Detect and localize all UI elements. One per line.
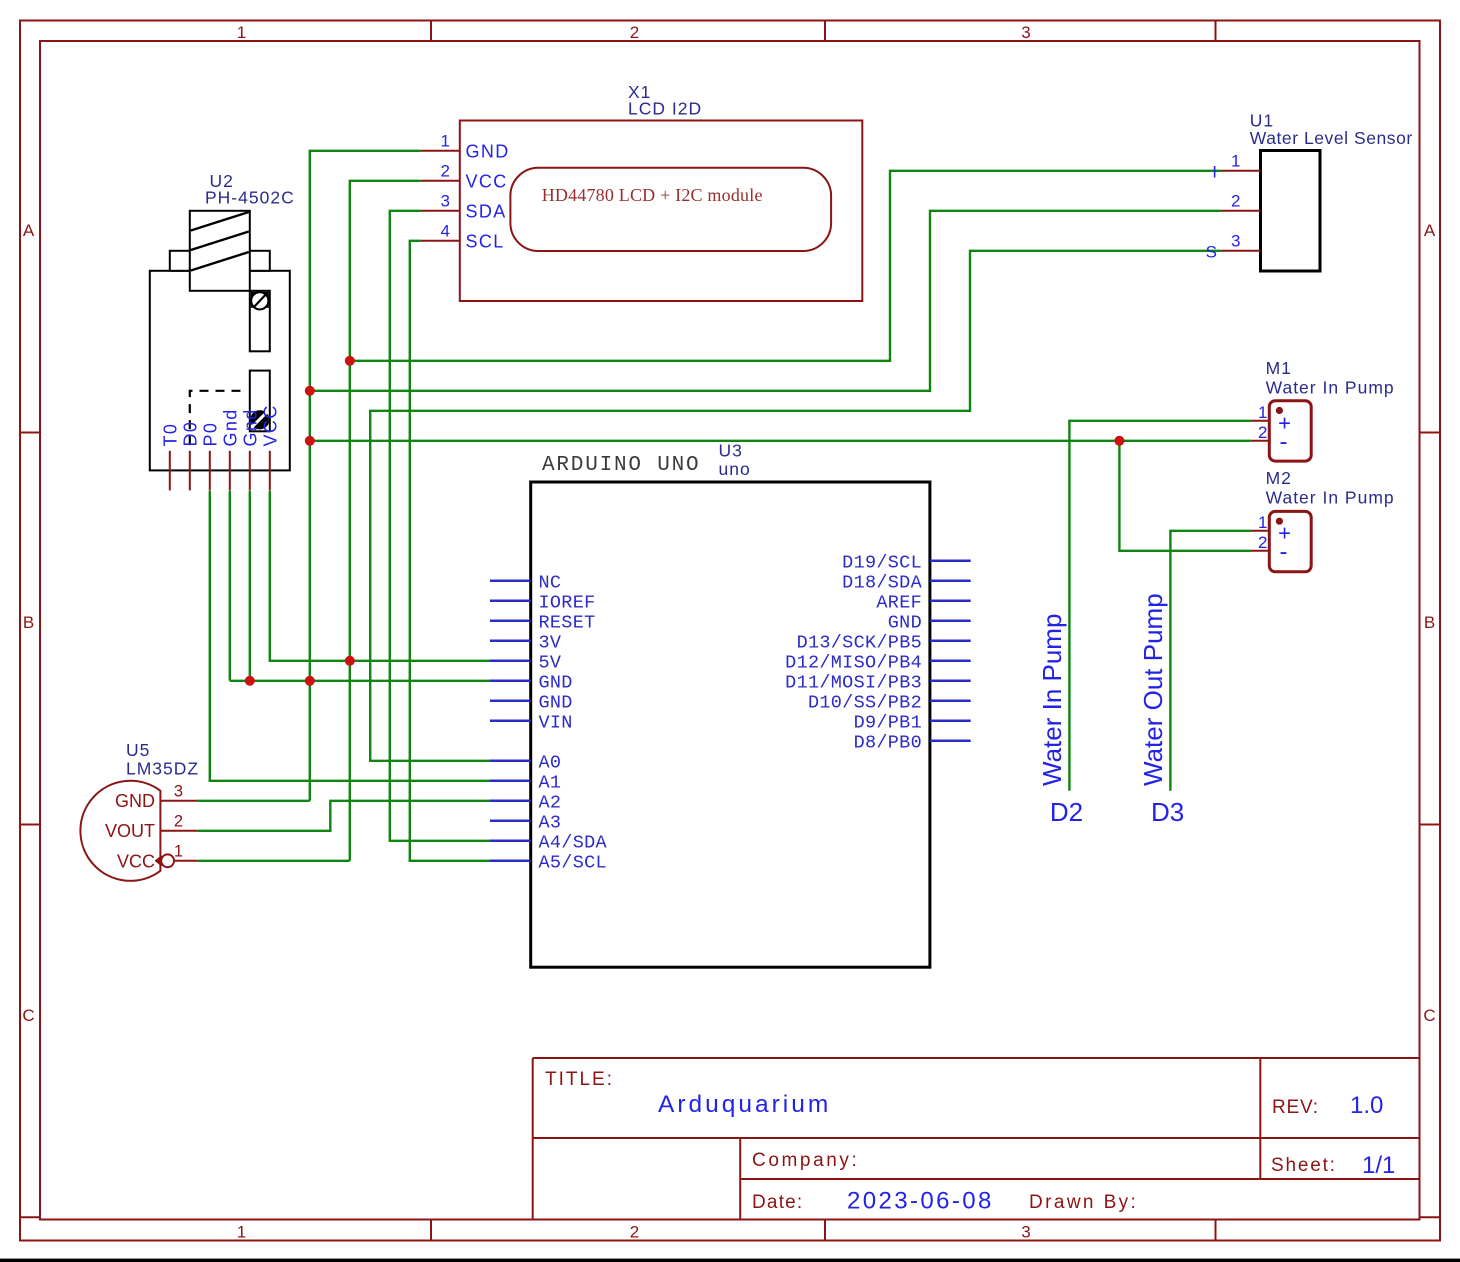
svg-text:TITLE:: TITLE: [545,1069,614,1090]
wire U2 P0 to A1 [210,491,490,781]
U2 lower connector rect [250,371,270,432]
U3 pin GND (left) [490,680,531,683]
U3 pin NC (left) [490,580,531,583]
wire LCD SCL to A5 [410,241,490,861]
svg-text:A4/SDA: A4/SDA [539,832,608,853]
U3 pin A2 (left) [490,800,531,803]
U2 dashed internal line [190,391,241,449]
U3 pin D19/SCL (right) [930,560,971,563]
junction node 2 [305,386,315,396]
water level sensor U1 body [1261,151,1321,272]
U3 pin A4/SDA (left) [490,840,531,843]
wire LCD VCC net (to 5V rail vertical) [350,181,421,861]
U3 pin IOREF (left) [490,600,531,603]
svg-text:D11/MOSI/PB3: D11/MOSI/PB3 [785,672,922,693]
U3 pin D11/MOSI/PB3 (right) [930,680,971,683]
U2 pin VCC [269,451,271,491]
column ticks bottom [431,1220,1216,1241]
U3 pin GND (right) [930,620,971,623]
U2 pin T0 [169,451,171,491]
svg-text:LM35DZ: LM35DZ [126,759,199,779]
svg-text:2: 2 [441,162,450,181]
svg-text:3V: 3V [539,632,562,653]
row ticks left [20,433,40,1218]
wire branch to M2 pin2 [1119,441,1250,551]
pump M1 body [1269,401,1311,461]
svg-text:1/1: 1/1 [1362,1152,1395,1179]
svg-text:IOREF: IOREF [539,592,596,613]
svg-text:uno: uno [719,459,751,479]
svg-text:Water In Pump: Water In Pump [1037,614,1067,786]
svg-text:VOUT: VOUT [105,821,155,841]
svg-text:2: 2 [630,23,639,42]
svg-text:A5/SCL: A5/SCL [539,852,607,873]
U3 pin VIN (left) [490,720,531,723]
svg-text:2: 2 [1258,533,1267,552]
svg-text:3: 3 [1021,1223,1030,1242]
X1 pin 3 SDA [421,210,460,212]
pump M1 pin 1 [1251,420,1270,422]
svg-text:Water Level Sensor: Water Level Sensor [1250,128,1413,148]
junction node 6 [245,676,255,686]
svg-text:1: 1 [237,23,246,42]
U3 pin RESET (left) [490,620,531,623]
svg-text:3: 3 [441,192,450,211]
wire LCD SDA to A4 [390,211,490,841]
svg-text:A1: A1 [539,772,562,793]
svg-text:Water Out Pump: Water Out Pump [1138,593,1168,786]
svg-text:5V: 5V [539,652,562,673]
column ticks top [431,21,1216,42]
svg-text:3: 3 [1231,232,1240,251]
U3 pin A3 (left) [490,820,531,823]
wire M1 pin1 to D2 [1069,421,1250,791]
svg-text:-: - [1280,538,1288,565]
svg-text:2: 2 [174,813,183,831]
svg-text:NC: NC [539,572,562,593]
svg-text:-: - [1280,428,1288,455]
svg-text:REV:: REV: [1272,1097,1319,1118]
wire U5 GND up to GND rail [198,800,310,802]
X1 pin 4 SCL [421,240,460,242]
svg-text:A: A [1424,221,1436,240]
svg-text:VCC: VCC [117,852,155,872]
svg-text:D9/PB1: D9/PB1 [854,712,922,733]
U3 pin D18/SDA (right) [930,580,971,583]
svg-text:1: 1 [174,843,183,861]
svg-text:D2: D2 [1050,797,1083,827]
wire GND to Arduino GND [230,680,490,682]
svg-text:1: 1 [1231,152,1240,171]
wire U5 VCC to 5V rail [198,860,350,862]
svg-text:P0: P0 [201,422,221,447]
U1 pin 1 [1221,170,1261,172]
svg-text:Gnd: Gnd [241,408,261,446]
svg-text:3: 3 [1021,23,1030,42]
wire U2 Gnd pin5 down [249,491,251,681]
svg-text:GND: GND [466,142,510,162]
svg-text:C: C [22,1006,34,1025]
wire LCD GND net (to GND rail vertical) [310,151,421,801]
svg-text:1: 1 [237,1223,246,1242]
svg-text:Company:: Company: [752,1150,859,1171]
svg-text:2: 2 [1258,423,1267,442]
X1 pin 2 VCC [421,180,460,182]
U5 pin 2 VOUT [160,830,197,832]
svg-text:M1: M1 [1266,358,1292,378]
U3 pin D9/PB1 (right) [930,720,971,723]
U5 pin 1 VCC with bubble [155,855,168,866]
U2 middle collar rect [170,251,270,271]
svg-text:LCD I2D: LCD I2D [628,99,702,119]
temperature sensor U5 body [80,781,160,881]
U3 pin 3V (left) [490,640,531,643]
svg-text:T0: T0 [161,423,181,447]
svg-text:4: 4 [441,222,450,241]
svg-text:Date:: Date: [752,1192,803,1213]
svg-text:1: 1 [1258,513,1267,532]
U2 pin Gnd [229,451,231,491]
junction node 7 [305,676,315,686]
svg-text:GND: GND [115,791,155,811]
junction node 3 [305,436,315,446]
U3 pin A5/SCL (left) [490,860,531,863]
U5 pin 3 GND [160,800,197,802]
X1 pin 1 GND [421,150,460,152]
svg-text:A2: A2 [539,792,562,813]
wire U2 Gnd pin4 down [229,491,231,681]
svg-text:C: C [1423,1006,1435,1025]
svg-text:D0: D0 [181,421,201,447]
svg-text:VCC: VCC [261,404,281,446]
svg-text:B: B [1424,613,1435,632]
U2 pin P0 [209,451,211,491]
U1 pin 3 [1221,250,1261,252]
junction node 4 [1114,436,1124,446]
svg-text:U5: U5 [126,740,150,760]
U3 pin D8/PB0 (right) [930,740,971,743]
svg-text:Gnd: Gnd [221,408,241,446]
svg-text:1: 1 [441,132,450,151]
svg-text:Sheet:: Sheet: [1271,1155,1337,1176]
U3 pin A1 (left) [490,780,531,783]
U3 pin D10/SS/PB2 (right) [930,700,971,703]
U2 probe hatched rect [190,211,250,291]
svg-text:Drawn By:: Drawn By: [1029,1192,1138,1213]
svg-text:D13/SCK/PB5: D13/SCK/PB5 [797,632,922,653]
svg-text:S: S [1206,243,1217,262]
svg-text:Arduquarium: Arduquarium [658,1091,831,1118]
svg-text:Water In Pump: Water In Pump [1266,378,1395,398]
pump M2 body [1269,511,1311,571]
U3 pin GND (left) [490,700,531,703]
svg-text:I: I [1212,163,1217,182]
svg-text:A: A [23,221,35,240]
U3 pin A0 (left) [490,760,531,763]
title block lines [533,1058,1420,1220]
svg-text:M2: M2 [1266,468,1292,488]
pump M2 pin 2 [1251,550,1270,552]
U2 pin Gnd [249,451,251,491]
junction node 5 [345,656,355,666]
wire U5 VOUT to A2 [198,801,490,831]
wire GND rail to U1 pin2 [310,211,1221,391]
wire 5V rail to U1 pin1 [350,171,1221,361]
svg-text:Water In Pump: Water In Pump [1266,488,1395,508]
svg-text:2023-06-08: 2023-06-08 [847,1188,994,1215]
wire U2 VCC to Arduino 5V [270,491,490,661]
svg-text:D10/SS/PB2: D10/SS/PB2 [808,692,922,713]
svg-text:D8/PB0: D8/PB0 [854,732,922,753]
row ticks right [1420,433,1441,1218]
svg-text:1: 1 [1258,403,1267,422]
svg-text:SDA: SDA [466,202,507,222]
svg-text:1.0: 1.0 [1350,1092,1383,1119]
junction node 1 [345,356,355,366]
U3 pin D13/SCK/PB5 (right) [930,640,971,643]
svg-text:ARDUINO UNO: ARDUINO UNO [542,454,700,477]
U3 pin D12/MISO/PB4 (right) [930,660,971,663]
svg-text:HD44780 LCD + I2C module: HD44780 LCD + I2C module [542,185,763,205]
svg-text:D19/SCL: D19/SCL [842,552,922,573]
svg-text:D3: D3 [1151,797,1184,827]
svg-text:U3: U3 [719,441,743,461]
U3 pin 5V (left) [490,660,531,663]
svg-text:D18/SDA: D18/SDA [842,572,922,593]
pump M1 pin 2 [1251,440,1270,442]
Arduino U3 body [531,482,930,967]
svg-text:GND: GND [888,612,922,633]
wire GND rail to M1 pin2 [310,440,1251,442]
pump M2 pin 1 [1251,530,1270,532]
U2 pin D0 [189,451,191,491]
U1 pin 2 [1221,210,1261,212]
U2 trimmer rect with screw [250,291,270,352]
svg-text:3: 3 [174,783,183,801]
svg-text:VIN: VIN [539,712,573,733]
LCD module X1 body [460,121,863,302]
svg-text:AREF: AREF [876,592,922,613]
svg-text:A0: A0 [539,752,562,773]
wire U1 pin3 to A0 [370,251,1221,761]
svg-text:D12/MISO/PB4: D12/MISO/PB4 [785,652,922,673]
svg-text:GND: GND [539,692,573,713]
svg-text:B: B [23,613,34,632]
svg-text:PH-4502C: PH-4502C [205,188,295,208]
U3 pin AREF (right) [930,600,971,603]
window bottom edge bar [0,1259,1460,1262]
svg-text:2: 2 [1231,192,1240,211]
svg-text:A3: A3 [539,812,562,833]
svg-text:SCL: SCL [466,232,505,252]
svg-text:2: 2 [630,1223,639,1242]
svg-text:GND: GND [539,672,573,693]
pH sensor U2 body [150,271,290,471]
svg-text:RESET: RESET [539,612,596,633]
svg-text:VCC: VCC [466,172,508,192]
wire M2 pin1 to D3 [1170,531,1250,791]
